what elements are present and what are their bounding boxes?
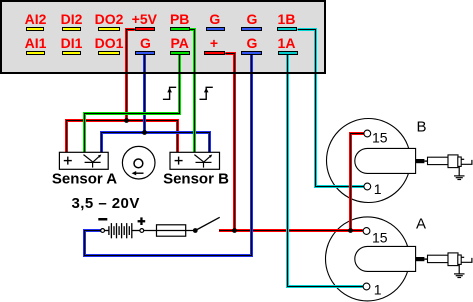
svg-text:DI2: DI2 [61, 11, 83, 27]
svg-text:+: + [210, 35, 218, 51]
svg-text:G: G [140, 35, 151, 51]
svg-text:AI1: AI1 [25, 35, 47, 51]
svg-text:PB: PB [170, 11, 189, 27]
svg-text:Sensor A: Sensor A [52, 171, 117, 188]
svg-text:G: G [247, 35, 258, 51]
svg-text:G: G [247, 11, 258, 27]
svg-text:A: A [416, 216, 426, 233]
svg-text:1A: 1A [278, 35, 296, 51]
svg-text:DO1: DO1 [95, 35, 124, 51]
svg-text:G: G [209, 11, 220, 27]
svg-text:AI2: AI2 [25, 11, 47, 27]
svg-text:15: 15 [372, 129, 388, 145]
svg-text:Sensor B: Sensor B [163, 171, 229, 188]
svg-text:DO2: DO2 [95, 11, 124, 27]
svg-text:1: 1 [374, 181, 382, 197]
svg-text:PA: PA [170, 35, 188, 51]
svg-text:15: 15 [372, 229, 388, 245]
svg-text:3,5 – 20V: 3,5 – 20V [72, 195, 140, 212]
svg-text:1B: 1B [278, 11, 296, 27]
svg-text:1: 1 [374, 281, 382, 297]
svg-text:B: B [417, 119, 427, 136]
svg-text:+5V: +5V [132, 11, 158, 27]
svg-text:DI1: DI1 [61, 35, 83, 51]
